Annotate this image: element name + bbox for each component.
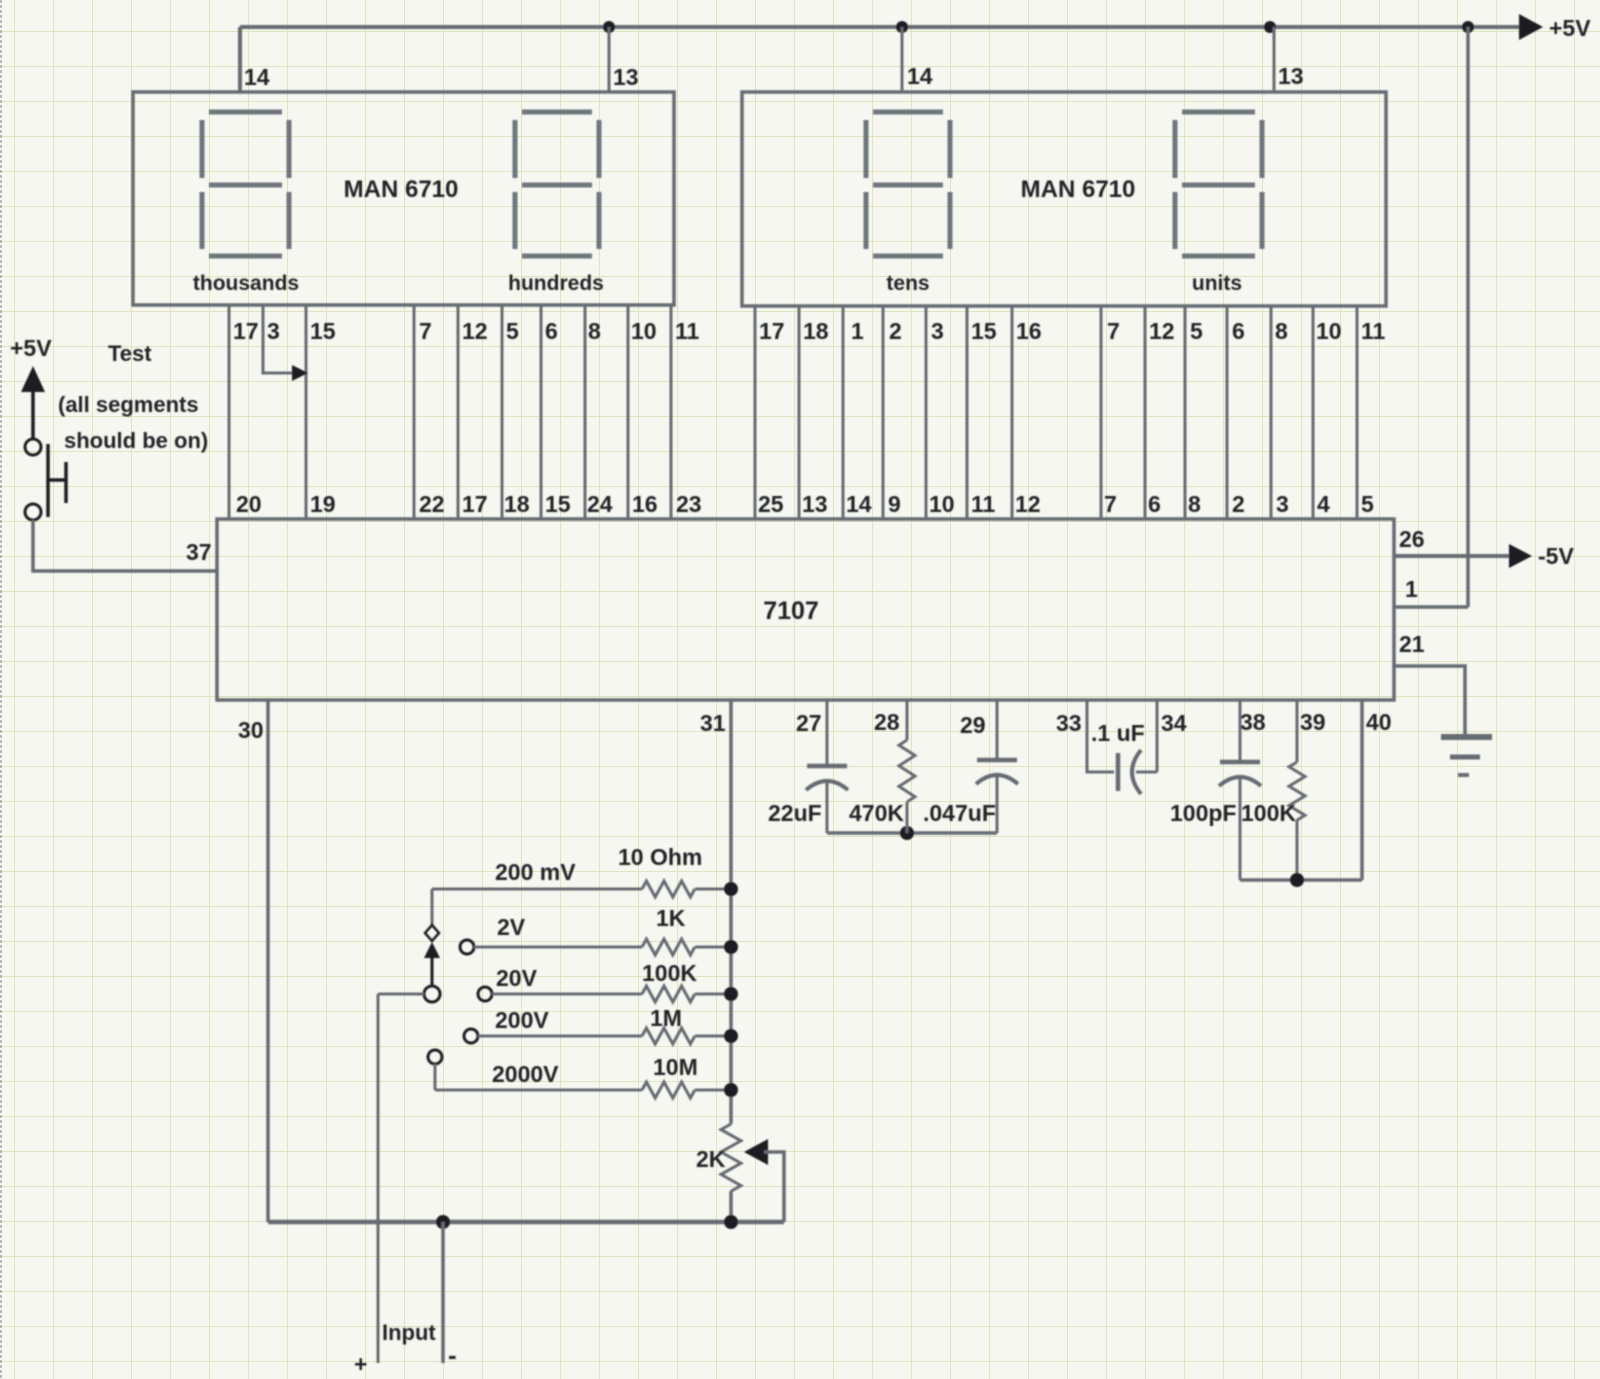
potentiometer R5 2K element xyxy=(721,1124,741,1191)
svg-text:10M: 10M xyxy=(653,1054,698,1080)
svg-text:24: 24 xyxy=(587,491,613,517)
resistor R4 10M xyxy=(642,1082,695,1098)
svg-text:.047uF: .047uF xyxy=(923,800,996,826)
svg-text:30: 30 xyxy=(238,717,264,743)
junction dot rail / right display pin 13 xyxy=(1264,21,1276,33)
svg-text:tens: tens xyxy=(886,272,929,295)
wire 200V contact to R3 xyxy=(478,1035,642,1038)
switch wiper arrow xyxy=(424,942,440,958)
junction dot 1M / column xyxy=(724,1029,738,1043)
range contact 2V xyxy=(460,940,474,954)
junction dot input- on rail xyxy=(436,1215,450,1229)
junction dot pot bottom on rail xyxy=(724,1215,738,1229)
svg-text:-5V: -5V xyxy=(1538,543,1574,569)
capacitor C3 .1uF xyxy=(1118,750,1141,794)
switch wiper diamond xyxy=(425,925,439,941)
svg-text:5: 5 xyxy=(1190,318,1203,344)
svg-text:8: 8 xyxy=(1275,318,1288,344)
svg-text:100K: 100K xyxy=(1241,800,1296,826)
wire left display pin 17 to 7107 pin 20 xyxy=(228,306,231,519)
wire C1 to analog common rail xyxy=(826,780,829,833)
svg-text:13: 13 xyxy=(802,491,828,517)
resistor R0 10 Ohm xyxy=(642,881,695,897)
svg-text:28: 28 xyxy=(874,709,900,735)
wire C4 down to osc rail xyxy=(1239,776,1242,880)
svg-text:2000V: 2000V xyxy=(492,1061,559,1087)
resistor R2 100K xyxy=(642,986,695,1002)
junction dot rail / 7107 pin 1 branch xyxy=(1462,21,1474,33)
svg-text:23: 23 xyxy=(676,491,702,517)
junction dot 1K / column xyxy=(724,940,738,954)
svg-text:31: 31 xyxy=(700,710,726,736)
junction arrow pin 3 onto pin 15 wire xyxy=(292,365,308,381)
wire R6 to common rail xyxy=(906,802,909,833)
seven-segment digit (thousands) xyxy=(202,112,289,256)
wire 7107 pin 31 / range ladder column xyxy=(729,700,733,1124)
svg-text:8: 8 xyxy=(1188,491,1201,517)
range contact 200V xyxy=(464,1029,478,1043)
wire 1K to column xyxy=(695,946,731,949)
svg-text:12: 12 xyxy=(462,318,488,344)
wire 100K to column xyxy=(695,993,731,996)
wire right display pin 16 to 7107 pin 12 xyxy=(1011,306,1014,519)
wire input- lead xyxy=(441,1222,445,1363)
resistor R6 470K xyxy=(899,740,915,802)
svg-text:12: 12 xyxy=(1149,318,1175,344)
wire 7107 pin 40 down xyxy=(1360,700,1364,880)
svg-text:22uF: 22uF xyxy=(768,800,822,826)
svg-text:12: 12 xyxy=(1015,491,1041,517)
wire 2000V contact down xyxy=(434,1064,437,1090)
wire left display pin 11 to 7107 pin 23 xyxy=(670,306,673,519)
test switch SW1 lower contact xyxy=(25,504,41,520)
analog common rail (pins 27-29) xyxy=(827,831,997,835)
wire pot bottom to input rail xyxy=(729,1191,733,1222)
svg-text:22: 22 xyxy=(419,491,445,517)
wire left display pin 14 to +5V rail xyxy=(238,27,242,92)
wire right display pin 2 to 7107 pin 9 xyxy=(882,306,885,519)
capacitor C2 .047uF xyxy=(976,760,1018,784)
svg-text:16: 16 xyxy=(1016,318,1042,344)
svg-text:18: 18 xyxy=(504,491,530,517)
wire right display pin 15 to 7107 pin 11 xyxy=(966,306,969,519)
svg-text:100pF: 100pF xyxy=(1170,800,1236,826)
svg-text:2: 2 xyxy=(889,318,902,344)
range contact 20V xyxy=(478,987,492,1001)
wire R7 down to osc rail xyxy=(1296,820,1299,880)
wire right display pin 5 to 7107 pin 8 xyxy=(1184,306,1187,519)
svg-text:13: 13 xyxy=(1278,63,1304,89)
ground symbol xyxy=(1441,737,1492,775)
svg-text:Test: Test xyxy=(108,341,152,366)
resistor R3 1M xyxy=(642,1028,695,1044)
svg-text:37: 37 xyxy=(186,539,212,565)
wire C3 to 7107 pin 34 xyxy=(1136,700,1157,772)
wire 200mV to switch wiper xyxy=(431,889,434,926)
svg-text:6: 6 xyxy=(1148,491,1161,517)
wire 20V contact to R2 xyxy=(492,993,642,996)
svg-text:11: 11 xyxy=(675,318,700,344)
wire 7107 pin 27 to C1 xyxy=(826,700,829,764)
wire right display pin 11 to 7107 pin 5 xyxy=(1356,306,1359,519)
svg-text:3: 3 xyxy=(267,318,280,344)
svg-text:200 mV: 200 mV xyxy=(495,859,576,885)
wire right display pin 12 to 7107 pin 6 xyxy=(1144,306,1147,519)
junction dot pin 28 on common rail xyxy=(900,826,914,840)
svg-text:16: 16 xyxy=(632,491,658,517)
svg-text:4: 4 xyxy=(1317,491,1330,517)
svg-text:21: 21 xyxy=(1399,631,1425,657)
svg-text:20: 20 xyxy=(236,491,262,517)
wire input+ to switch pole xyxy=(378,993,424,996)
svg-text:MAN 6710: MAN 6710 xyxy=(1021,176,1136,203)
wire right display pin 8 to 7107 pin 3 xyxy=(1270,306,1273,519)
svg-text:11: 11 xyxy=(1361,318,1386,344)
svg-text:MAN 6710: MAN 6710 xyxy=(344,176,459,203)
svg-text:1K: 1K xyxy=(656,905,686,931)
svg-text:units: units xyxy=(1192,272,1242,295)
svg-text:1: 1 xyxy=(851,318,864,344)
+5V power rail wire xyxy=(240,25,1519,29)
svg-text:15: 15 xyxy=(545,491,571,517)
svg-text:should be on): should be on) xyxy=(64,428,208,453)
seven-segment digit (tens) xyxy=(866,112,950,256)
svg-text:18: 18 xyxy=(803,318,829,344)
svg-text:2: 2 xyxy=(1232,491,1245,517)
junction dot 10M / column xyxy=(724,1083,738,1097)
svg-text:26: 26 xyxy=(1399,526,1425,552)
junction dot 100K / column xyxy=(724,987,738,1001)
wire 7107 pin 26 to -5V xyxy=(1394,554,1509,558)
wire test switch to 7107 pin 37 xyxy=(33,520,217,571)
range switch pole contact xyxy=(424,986,440,1002)
wire left display pin 3 xyxy=(263,306,300,373)
svg-text:34: 34 xyxy=(1161,710,1187,736)
svg-text:6: 6 xyxy=(1232,318,1245,344)
svg-text:+5V: +5V xyxy=(10,335,52,361)
svg-text:2V: 2V xyxy=(497,914,526,940)
svg-text:10 Ohm: 10 Ohm xyxy=(618,844,702,870)
svg-text:25: 25 xyxy=(758,491,784,517)
display module U3 MAN6710 box xyxy=(742,92,1386,306)
wire pot wiper to input rail xyxy=(764,1152,784,1222)
svg-text:5: 5 xyxy=(1361,491,1374,517)
wire 7107 pin 21 to ground xyxy=(1394,666,1465,735)
svg-text:hundreds: hundreds xyxy=(508,272,604,295)
capacitor C4 100pF xyxy=(1219,762,1261,786)
junction dot rail / right display pin 14 xyxy=(896,21,908,33)
oscillator bottom rail (pins 38-40) xyxy=(1240,878,1362,882)
wire left display pin 12 to 7107 pin 17 xyxy=(457,306,460,519)
wire 200 mV range line xyxy=(432,888,642,891)
range contact 2000V xyxy=(428,1050,442,1064)
wire 2V contact to R1 xyxy=(474,946,642,949)
wire wiper to pole xyxy=(431,958,434,986)
wire 7107 pin 28 to R6 xyxy=(906,700,909,740)
svg-text:17: 17 xyxy=(233,318,259,344)
svg-text:27: 27 xyxy=(796,710,822,736)
wire right display pin 13 to +5V rail xyxy=(1273,27,1276,92)
svg-text:+: + xyxy=(354,1351,367,1377)
wire right display pin 6 to 7107 pin 2 xyxy=(1226,306,1229,519)
svg-text:470K: 470K xyxy=(849,800,904,826)
svg-text:13: 13 xyxy=(613,64,639,90)
svg-text:2K: 2K xyxy=(696,1146,726,1172)
wire left display pin 13 to +5V rail xyxy=(608,27,611,92)
svg-text:100K: 100K xyxy=(642,960,697,986)
svg-text:14: 14 xyxy=(907,63,933,89)
svg-text:5: 5 xyxy=(506,318,519,344)
capacitor C1 22uF xyxy=(806,766,848,790)
wire 7107 pin 39 to R7 xyxy=(1296,700,1299,762)
wire left display pin 5 to 7107 pin 18 xyxy=(501,306,504,519)
svg-text:thousands: thousands xyxy=(193,272,299,295)
wire 7107 pin 38 to C4 xyxy=(1239,700,1242,760)
wire right display pin 14 to +5V rail xyxy=(901,27,904,92)
wire 10M to column xyxy=(695,1089,731,1092)
svg-text:3: 3 xyxy=(931,318,944,344)
junction dot rail / left display pin 13 xyxy=(603,21,615,33)
wire 7107 pin 29 to C2 xyxy=(996,700,999,758)
svg-text:17: 17 xyxy=(759,318,785,344)
svg-text:40: 40 xyxy=(1366,709,1392,735)
resistor R7 100K xyxy=(1289,762,1305,820)
wire right display pin 3 to 7107 pin 10 xyxy=(925,306,928,519)
wire right display pin 18 to 7107 pin 13 xyxy=(798,306,801,519)
svg-text:7: 7 xyxy=(1107,318,1120,344)
svg-text:.1 uF: .1 uF xyxy=(1091,720,1145,746)
svg-text:20V: 20V xyxy=(496,965,538,991)
-5V arrowhead xyxy=(1509,544,1532,568)
junction dot R7 on osc rail xyxy=(1290,873,1304,887)
display module U2 MAN6710 box xyxy=(133,92,674,305)
svg-text:7107: 7107 xyxy=(763,597,819,625)
scan edge artifact (left border) xyxy=(0,0,2,1379)
svg-text:+5V: +5V xyxy=(1549,15,1591,41)
+5V arrow symbol (test) xyxy=(21,366,45,440)
svg-text:33: 33 xyxy=(1056,710,1082,736)
wire left display pin 7 to 7107 pin 22 xyxy=(413,306,416,519)
wire right display pin 7 to 7107 pin 7 xyxy=(1100,306,1103,519)
svg-text:9: 9 xyxy=(888,491,901,517)
svg-text:-: - xyxy=(448,1340,457,1370)
svg-text:29: 29 xyxy=(960,712,986,738)
wire right display pin 17 to 7107 pin 25 xyxy=(754,306,757,519)
svg-text:Input: Input xyxy=(382,1320,436,1345)
test switch SW1 actuator xyxy=(48,444,66,517)
wire right display pin 1 to 7107 pin 14 xyxy=(842,306,845,519)
svg-text:11: 11 xyxy=(971,491,996,517)
IC U1 7107 box xyxy=(217,519,1394,700)
svg-text:14: 14 xyxy=(846,491,872,517)
wire right display pin 10 to 7107 pin 4 xyxy=(1312,306,1315,519)
wire 10 Ohm to pin31 column xyxy=(695,888,731,891)
svg-text:15: 15 xyxy=(971,318,997,344)
+5V rail arrowhead xyxy=(1519,14,1543,40)
wire left display pin 6 to 7107 pin 15 xyxy=(540,306,543,519)
input low rail wire xyxy=(268,1220,784,1225)
svg-text:8: 8 xyxy=(588,318,601,344)
wire left display pin 10 to 7107 pin 16 xyxy=(627,306,630,519)
svg-text:(all segments: (all segments xyxy=(58,392,199,417)
resistor R1 1K xyxy=(642,939,695,955)
wire 7107 pin 33 to C3 xyxy=(1087,700,1114,772)
svg-text:39: 39 xyxy=(1300,709,1326,735)
wire 2000V line xyxy=(435,1089,642,1092)
svg-text:3: 3 xyxy=(1276,491,1289,517)
svg-text:15: 15 xyxy=(310,318,336,344)
svg-text:1M: 1M xyxy=(650,1005,682,1031)
wire +5V rail to 7107 pin 1 xyxy=(1394,27,1468,607)
wire 7107 pin 30 down-left side xyxy=(266,700,270,1222)
svg-text:14: 14 xyxy=(244,64,270,90)
svg-text:10: 10 xyxy=(1316,318,1342,344)
svg-text:10: 10 xyxy=(929,491,955,517)
wire input+ lead xyxy=(377,994,380,1363)
seven-segment digit (hundreds) xyxy=(515,112,599,256)
pot R5 wiper arrow xyxy=(744,1139,768,1165)
seven-segment digit (units) xyxy=(1175,112,1262,256)
svg-text:7: 7 xyxy=(419,318,432,344)
svg-text:10: 10 xyxy=(631,318,657,344)
svg-text:17: 17 xyxy=(462,491,488,517)
wire 1M to column xyxy=(695,1035,731,1038)
svg-text:7: 7 xyxy=(1104,491,1117,517)
svg-text:38: 38 xyxy=(1240,709,1266,735)
svg-text:200V: 200V xyxy=(495,1007,549,1033)
wire left display pin 8 to 7107 pin 24 xyxy=(584,306,587,519)
wire left display pin 15 to 7107 pin 19 xyxy=(305,306,308,519)
svg-text:6: 6 xyxy=(545,318,558,344)
test switch SW1 upper contact xyxy=(25,439,41,455)
svg-text:19: 19 xyxy=(310,491,336,517)
wire C2 to common rail xyxy=(996,774,999,833)
svg-text:1: 1 xyxy=(1405,576,1418,602)
junction dot 10 Ohm / column xyxy=(724,882,738,896)
